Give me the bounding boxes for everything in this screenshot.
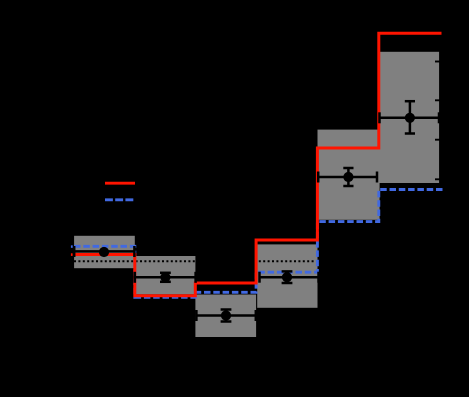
red line left stub [71, 253, 73, 256]
blue line left stub [71, 245, 73, 248]
blue dashed prediction histogram [74, 190, 443, 298]
y-axis tick marks on right spine over band 6 [435, 62, 440, 180]
data point bin 4 [260, 271, 319, 283]
data point bin 6 [380, 101, 440, 133]
legend blue entry [105, 198, 135, 201]
data point bin 3 [196, 310, 255, 322]
data point bin 1 [74, 246, 134, 257]
uncertainty band bin 4 [257, 244, 317, 307]
data point bin 2 [135, 272, 196, 283]
uncertainty band bin 1 [74, 236, 135, 268]
uncertainty band bin 2 [134, 256, 195, 294]
right axis spine over band 6 [439, 45, 441, 185]
uncertainty band bin 5 [318, 130, 380, 220]
data point bin 5 [318, 168, 377, 186]
dotted reference line [74, 260, 440, 262]
uncertainty band bin 3 [195, 295, 256, 338]
uncertainty band bin 6 [379, 52, 439, 183]
legend red entry [105, 182, 135, 185]
red solid prediction histogram [74, 33, 442, 295]
